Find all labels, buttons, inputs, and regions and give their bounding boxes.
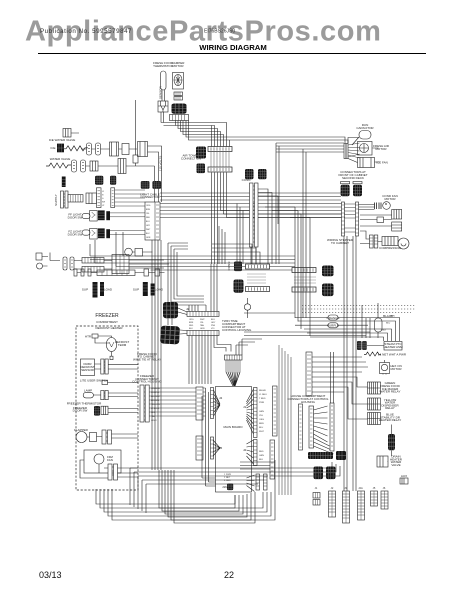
right strip upper xyxy=(254,388,258,438)
relay green box xyxy=(368,382,381,394)
board bottom J16 square xyxy=(227,484,233,491)
steam heater hatch sq 2 xyxy=(362,341,367,350)
defrost heater terminal box xyxy=(92,334,98,338)
mid center hatch bar xyxy=(246,287,270,292)
svg-text:LOAD: LOAD xyxy=(104,288,113,292)
bus drop mid verticals xyxy=(237,204,243,265)
svg-text:YELLOW: YELLOW xyxy=(151,404,160,406)
bus segment to right deck xyxy=(258,193,341,200)
heater coil row xyxy=(364,352,381,356)
wires left aux xyxy=(50,253,169,270)
supply black connector 1 xyxy=(95,176,103,185)
wire heater xyxy=(95,336,112,356)
housing fan right xyxy=(314,406,334,454)
svg-text:J16: J16 xyxy=(222,485,227,489)
flapper box xyxy=(90,433,97,442)
relay box 1 xyxy=(392,210,402,220)
drain heater box xyxy=(377,456,388,467)
svg-text:BLK: BLK xyxy=(259,459,264,461)
svg-text:ORG: ORG xyxy=(146,205,151,207)
wires pin strip to relays xyxy=(312,357,368,419)
left aux box xyxy=(112,255,129,274)
svg-text:BRN: BRN xyxy=(259,423,264,425)
water valve coil xyxy=(46,163,71,168)
svg-text:PNK: PNK xyxy=(211,325,216,327)
right fan lower xyxy=(247,440,254,464)
damper connector block xyxy=(172,104,187,114)
bottom black grid left xyxy=(314,467,324,480)
steam heater box xyxy=(384,342,402,351)
pin strip A xyxy=(97,188,102,208)
fz switch black bar A xyxy=(98,228,105,238)
board left pin labels strip lower xyxy=(196,436,203,460)
housing bar pin texts xyxy=(189,319,216,330)
svg-text:COMPARTMENT: COMPARTMENT xyxy=(96,320,118,324)
svg-text:BLK: BLK xyxy=(189,328,193,330)
center nested loops xyxy=(168,243,206,305)
center housing strip 1 xyxy=(299,404,303,450)
wire thermistor to connector xyxy=(162,90,165,101)
left strip upper xyxy=(211,388,214,419)
fz switch wires xyxy=(110,231,145,235)
svg-text:RELAY: RELAY xyxy=(259,389,267,392)
right pin strip mid xyxy=(306,352,312,396)
board top black fan xyxy=(226,372,240,386)
J6 connector xyxy=(381,491,388,509)
svg-text:CONN: CONN xyxy=(227,262,231,271)
compressor conn hatch 2 xyxy=(374,235,378,248)
svg-text:TAN: TAN xyxy=(151,415,156,418)
defrost housing box xyxy=(81,359,95,376)
J row labels xyxy=(315,486,386,490)
fresh food thermistor body xyxy=(161,71,167,90)
svg-text:BLACK: BLACK xyxy=(383,314,393,318)
svg-text:CONTROL HOUSING: CONTROL HOUSING xyxy=(222,328,252,332)
fz switch black bar B xyxy=(106,229,110,238)
right pin labels upper xyxy=(259,389,267,433)
ff switch lever xyxy=(82,213,90,218)
mid right pins xyxy=(294,277,316,283)
svg-text:MOTOR: MOTOR xyxy=(384,197,396,201)
ff switch black bar A xyxy=(98,210,105,220)
wires freezer conn to loops xyxy=(202,388,216,486)
svg-text:J5: J5 xyxy=(219,446,223,450)
lite comp xyxy=(102,381,108,385)
wire lamp xyxy=(93,393,138,397)
condenser fan capacitor xyxy=(375,203,382,210)
water valve box xyxy=(90,161,98,171)
svg-text:SUP: SUP xyxy=(133,288,139,292)
svg-text:FREEZER: FREEZER xyxy=(95,313,119,319)
left fan upper xyxy=(213,389,220,417)
mid right black grid 2 xyxy=(322,284,334,297)
harness drop wires xyxy=(152,240,161,470)
wires between deck strips xyxy=(345,204,356,232)
housing fan collect strip xyxy=(330,403,334,451)
svg-text:SUP: SUP xyxy=(82,288,88,292)
main bus harness to center xyxy=(160,193,345,218)
svg-text:MOTOR: MOTOR xyxy=(390,367,402,371)
load supply hatch pair 1a xyxy=(93,282,98,298)
damper hatch rows xyxy=(174,92,183,96)
steam bend labels xyxy=(382,316,395,332)
freezer dashed box xyxy=(76,326,138,490)
load supply hatch pair 2a xyxy=(143,282,148,296)
frz fan conn strip xyxy=(108,464,112,480)
center connector strip pair xyxy=(250,183,254,247)
svg-text:WIRING DIAGRAM: WIRING DIAGRAM xyxy=(199,43,266,52)
wire bus left drop xyxy=(90,232,123,267)
left plug box xyxy=(86,193,97,204)
svg-text:ORG: ORG xyxy=(189,319,194,321)
wire thermistor down xyxy=(161,112,164,123)
steam heater hatch sq 1 xyxy=(357,341,362,350)
horizontal bus lower mid xyxy=(244,312,295,314)
top-left small box xyxy=(63,129,71,138)
svg-text:03/13: 03/13 xyxy=(39,570,62,580)
wires into housing bar top xyxy=(189,264,217,311)
ice valve box3 xyxy=(138,142,148,157)
svg-text:ORANGE: ORANGE xyxy=(326,316,339,320)
svg-text:PURPLE: PURPLE xyxy=(151,392,160,394)
svg-text:TAN: TAN xyxy=(200,324,204,327)
wires freezer connector right xyxy=(149,388,205,416)
mid pin text rows xyxy=(247,274,266,283)
right pin labels lower xyxy=(259,451,264,461)
water valve box2 xyxy=(118,159,126,174)
left connector column xyxy=(61,191,64,208)
svg-text:BLK: BLK xyxy=(382,330,387,332)
mid-left black grid 1 xyxy=(234,262,242,272)
svg-text:GRN: GRN xyxy=(259,455,264,457)
wire row2 xyxy=(86,165,119,167)
svg-text:ICE FAN: ICE FAN xyxy=(376,161,388,165)
center cabinet connector black grid lower xyxy=(258,169,267,179)
relay box 2 xyxy=(392,222,402,231)
freezer thermistor grid xyxy=(94,406,100,416)
wire hatch to box xyxy=(367,345,384,347)
compressor terminal box xyxy=(382,237,398,246)
thermistor connector xyxy=(158,101,168,112)
svg-text:WIRE TIE AT RELAY: WIRE TIE AT RELAY xyxy=(133,357,161,361)
svg-text:L1 NET WHT A PWR: L1 NET WHT A PWR xyxy=(378,353,407,357)
ice valve box1 xyxy=(110,142,119,156)
left aux wide bar upper xyxy=(82,258,104,264)
svg-text:115 VOLTS: 115 VOLTS xyxy=(159,156,163,171)
relay blue box xyxy=(368,413,381,425)
J4A connector xyxy=(358,491,365,520)
vertical bus right of board xyxy=(279,345,291,495)
wire row2 to harness xyxy=(126,166,155,202)
wire bundle damper to air tower xyxy=(161,121,227,148)
svg-text:BLU: BLU xyxy=(146,221,150,223)
svg-text:WATER RELAY: WATER RELAY xyxy=(380,390,401,394)
far left tiny comp A xyxy=(36,253,42,260)
svg-text:BRN: BRN xyxy=(146,209,151,211)
damper motor body xyxy=(173,73,184,90)
cap box xyxy=(135,249,143,257)
svg-text:J2: J2 xyxy=(243,448,247,452)
housing bar upper xyxy=(187,311,219,316)
fz switch box xyxy=(90,228,98,239)
center housing strip 2 xyxy=(309,406,314,448)
svg-text:RELAY: RELAY xyxy=(385,406,395,410)
right deck connector hatch xyxy=(344,144,348,159)
right strip lower xyxy=(254,440,258,466)
svg-text:DEFROST HEATER: DEFROST HEATER xyxy=(95,326,123,330)
svg-text:J4: J4 xyxy=(219,396,223,400)
wires housing bar down to left strips xyxy=(189,336,211,385)
evap fan motor box xyxy=(358,142,373,156)
dotted lines xyxy=(302,306,415,313)
svg-text:GRN: GRN xyxy=(146,237,151,239)
svg-text:FREEZER THERMISTOR: FREEZER THERMISTOR xyxy=(67,402,102,406)
drain heater grid xyxy=(388,434,395,450)
deck black connector left xyxy=(341,185,350,196)
svg-text:CONN: CONN xyxy=(242,178,251,182)
wire thermistor xyxy=(108,409,138,413)
wire frz fan loop xyxy=(80,460,138,478)
svg-text:CAPACITOR: CAPACITOR xyxy=(356,126,374,130)
svg-text:TO CABINET: TO CABINET xyxy=(331,241,349,245)
wires grids to housing bar xyxy=(168,308,187,334)
deck black connector right bar xyxy=(353,182,362,184)
board-right strip 1 xyxy=(273,386,278,436)
run capacitor xyxy=(359,131,371,140)
freezer thermistor comp xyxy=(101,406,108,414)
tiny box right of J6 xyxy=(400,478,408,484)
ptc box xyxy=(377,217,384,223)
svg-text:SECOND DECK: SECOND DECK xyxy=(342,176,364,180)
board top ribbon xyxy=(226,360,240,372)
svg-text:HTR: HTR xyxy=(85,335,92,339)
fz switch lever xyxy=(82,230,90,235)
defrost small dot xyxy=(110,356,113,360)
load supply hatch pair 2b xyxy=(151,284,155,296)
wire fuse xyxy=(362,303,378,338)
deck black connector left bar xyxy=(341,182,350,184)
svg-text:SENSOR: SENSOR xyxy=(81,368,95,372)
lower big black grid xyxy=(160,326,180,345)
wire compressor cluster xyxy=(360,231,398,244)
nested loop wires bottom xyxy=(159,470,255,523)
J1 connector xyxy=(313,493,320,499)
deck black connector right xyxy=(353,185,362,196)
svg-text:2 NET: 2 NET xyxy=(224,477,231,479)
svg-text:RED: RED xyxy=(259,451,264,453)
board bottom right fan xyxy=(247,475,255,492)
wires from right into top connector xyxy=(236,339,262,355)
lamp conn strip xyxy=(101,391,104,400)
solid mid bus xyxy=(244,332,370,336)
bottom horizontal gray bus xyxy=(240,462,275,469)
svg-text:GRN: GRN xyxy=(200,328,205,330)
mid right black grid 1 xyxy=(322,266,334,277)
bus mid horizontal xyxy=(90,256,295,270)
title underline xyxy=(38,53,426,55)
fuse p circle xyxy=(244,304,250,310)
svg-text:BROWN: BROWN xyxy=(151,400,159,402)
loop top edges xyxy=(130,468,275,513)
svg-text:ORG: ORG xyxy=(259,419,264,421)
board left pin labels strip upper xyxy=(196,387,203,420)
pin strip B xyxy=(111,188,115,208)
svg-text:FAN: FAN xyxy=(107,458,113,462)
svg-text:J4A: J4A xyxy=(358,486,363,490)
air tower hatch field xyxy=(211,152,229,167)
svg-text:WATER VALVE: WATER VALVE xyxy=(50,157,71,161)
svg-text:BLU: BLU xyxy=(211,319,215,321)
ff switch box xyxy=(90,210,98,221)
svg-text:T RED: T RED xyxy=(259,398,266,400)
defrost heater ellipse xyxy=(106,338,116,352)
freezer lamp xyxy=(83,392,93,398)
ff switch wires xyxy=(110,213,145,217)
wire valve row1 xyxy=(81,148,110,150)
J2 connector xyxy=(329,491,336,517)
right bottom horizontals xyxy=(270,462,340,476)
svg-text:HEATER ASM: HEATER ASM xyxy=(383,345,403,349)
svg-text:Publication No. 5995579847: Publication No. 5995579847 xyxy=(40,28,132,35)
bottom small strips xyxy=(256,474,260,490)
aux long bar xyxy=(97,270,135,276)
svg-text:YEL: YEL xyxy=(146,213,150,215)
air tower connection lower bar xyxy=(208,167,232,172)
load supply hatch pair 1b xyxy=(100,282,104,296)
svg-text:LT BLUE: LT BLUE xyxy=(151,408,160,410)
center cabinet connector black grid upper xyxy=(245,169,254,179)
wire bundle to right deck xyxy=(186,121,348,148)
svg-text:L1: L1 xyxy=(102,191,104,193)
J5 connector xyxy=(371,491,378,506)
svg-text:WHT: WHT xyxy=(200,319,205,321)
aug fan motor box xyxy=(380,363,390,374)
ice valve box2 xyxy=(122,144,129,155)
svg-text:MOTOR: MOTOR xyxy=(172,64,184,68)
svg-text:RED: RED xyxy=(151,412,156,414)
air tower black connector upper xyxy=(196,147,206,159)
svg-text:HEATER RELAY: HEATER RELAY xyxy=(379,418,401,422)
harness small comp xyxy=(133,155,138,163)
svg-text:GRY: GRY xyxy=(211,322,216,324)
wires strips right xyxy=(115,190,145,206)
relay yellow box xyxy=(368,398,381,410)
cap circle xyxy=(125,248,133,256)
mid right bar connector upper xyxy=(292,268,316,273)
wires below air tower xyxy=(212,173,346,265)
main harness connector strip xyxy=(145,202,160,240)
left wide plug xyxy=(68,195,83,202)
ff switch black bar B xyxy=(106,211,110,220)
condenser fan motor xyxy=(383,202,391,210)
board-right strip 2 xyxy=(270,440,275,479)
svg-text:ORANGE: ORANGE xyxy=(151,387,161,390)
orange capsule label xyxy=(328,315,338,320)
supply narrow black connector xyxy=(62,177,66,188)
svg-text:L1 NEU: L1 NEU xyxy=(259,394,267,396)
svg-text:DOOR SW: DOOR SW xyxy=(68,215,83,219)
J3 connector xyxy=(343,491,350,523)
right fan upper xyxy=(247,389,254,434)
svg-text:EI76BS26JS0: EI76BS26JS0 xyxy=(204,29,235,35)
board bottom pin texts xyxy=(224,474,231,482)
harness top black grid A xyxy=(141,181,150,189)
wires housing bar to top connector xyxy=(214,336,231,352)
svg-text:SUPPLY: SUPPLY xyxy=(54,194,58,206)
corner nest center xyxy=(212,244,260,264)
wires center strip down xyxy=(251,247,256,264)
svg-text:MOTOR: MOTOR xyxy=(375,147,387,151)
mid right hatch bar xyxy=(292,287,316,292)
collect strip feeders xyxy=(331,352,334,403)
wire flapper xyxy=(87,434,138,438)
air tower connection upper bar xyxy=(208,147,232,152)
svg-text:DOOR SW: DOOR SW xyxy=(73,409,88,413)
wire row1 to harness xyxy=(148,146,162,202)
left fan lower xyxy=(213,440,220,456)
svg-text:BLK/WHT: BLK/WHT xyxy=(151,396,161,398)
far left tiny comp B xyxy=(37,263,43,269)
svg-text:COMPRESSOR: COMPRESSOR xyxy=(379,246,402,250)
staircase bends center strip right xyxy=(258,189,278,264)
wire deck to condenser fan xyxy=(359,205,375,210)
supply black connector 2 xyxy=(110,176,116,185)
ice fan box xyxy=(358,158,375,168)
svg-text:PWR: PWR xyxy=(259,402,265,404)
svg-text:AUX: AUX xyxy=(401,474,407,478)
freezer connector strip xyxy=(140,385,144,422)
ice water valve connector xyxy=(57,144,64,153)
purple capsule label xyxy=(328,323,338,328)
deck feeder horizontals xyxy=(276,143,344,152)
aux second row bars xyxy=(74,269,77,276)
svg-text:J1: J1 xyxy=(243,405,247,409)
svg-text:GRAY: GRAY xyxy=(151,419,157,422)
svg-text:TERM: TERM xyxy=(118,343,127,347)
svg-text:LAMP: LAMP xyxy=(84,389,92,393)
side black block xyxy=(336,451,346,460)
frz fan inner box xyxy=(84,450,121,473)
wire xyxy=(119,148,138,150)
L-bend fanout to steam cluster xyxy=(295,318,400,342)
upper big black grid xyxy=(163,302,178,318)
wire drain xyxy=(388,425,392,462)
main board outline xyxy=(216,387,252,493)
wide flat black connector xyxy=(308,452,333,459)
damper plug bar xyxy=(170,115,189,121)
deck feeder drops xyxy=(276,143,306,318)
svg-text:CONNECTOR: CONNECTOR xyxy=(140,195,160,199)
svg-text:WHT: WHT xyxy=(259,431,265,433)
compressor conn hatch 1 xyxy=(370,235,374,248)
compressor motor xyxy=(398,238,409,249)
wire defrost strip xyxy=(95,364,139,369)
deck strip right xyxy=(356,202,359,236)
air tower long drops xyxy=(219,226,225,264)
board top connector bar xyxy=(225,355,243,360)
fan wedge xyxy=(348,143,360,158)
fuse capsule xyxy=(375,318,383,332)
svg-text:VALVE: VALVE xyxy=(391,463,400,467)
svg-text:CONTROL HOUSING: CONTROL HOUSING xyxy=(132,380,162,384)
mid-left black grid 2 xyxy=(234,280,244,293)
flapper lamp circle xyxy=(76,432,87,443)
defrost conn strip xyxy=(101,359,104,374)
svg-text:HOUSING: HOUSING xyxy=(301,400,316,404)
wire deck connector to ice fan xyxy=(348,148,380,163)
wire ptc xyxy=(360,215,392,226)
left aux wide bar lower xyxy=(82,267,104,273)
